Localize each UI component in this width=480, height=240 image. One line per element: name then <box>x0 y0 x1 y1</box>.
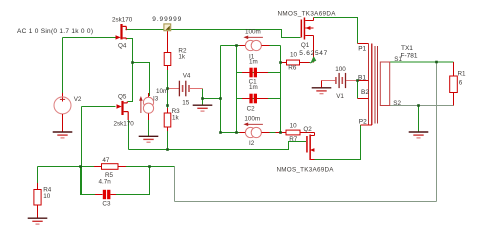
node I2 left <box>235 131 238 134</box>
ground R4 <box>28 218 48 224</box>
svg-text:1k: 1k <box>178 53 186 60</box>
wire V4 plus to ground node <box>203 89 221 99</box>
resistor R1 <box>450 62 466 106</box>
svg-text:100m: 100m <box>244 115 260 122</box>
transformer TX1 <box>358 44 418 126</box>
svg-text:47: 47 <box>102 157 110 164</box>
probe marker node 9.99999 <box>152 16 181 31</box>
wire node A to Q5 drain <box>128 63 133 102</box>
svg-text:100: 100 <box>335 66 346 73</box>
wire R3 bottom <box>167 131 169 150</box>
wire bottom rail <box>175 201 437 203</box>
node I2 right <box>279 131 282 134</box>
svg-text:Q5: Q5 <box>118 93 127 100</box>
resistor R2 <box>164 31 187 70</box>
svg-text:10: 10 <box>290 52 298 59</box>
wire S1 row <box>390 61 454 63</box>
svg-text:Q4: Q4 <box>118 43 127 50</box>
svg-text:F-781: F-781 <box>401 52 418 59</box>
capacitor C3 <box>95 178 116 207</box>
svg-text:P2: P2 <box>359 119 367 126</box>
node R3 bottom <box>166 148 169 151</box>
wire V2 stem <box>62 38 64 95</box>
wire I1 row <box>237 45 281 47</box>
node R5 left <box>79 165 82 168</box>
wire Q1 drain to P1 <box>314 18 358 44</box>
svg-text:B2: B2 <box>361 89 369 96</box>
svg-text:B1: B1 <box>358 75 366 82</box>
svg-text:1m: 1m <box>249 58 258 65</box>
battery V4 <box>168 72 203 106</box>
probe marker Q1 source node <box>310 56 316 64</box>
capacitor C2 <box>242 94 268 113</box>
node I1 left <box>235 44 238 47</box>
resistor R5 <box>94 157 126 179</box>
svg-text:P1: P1 <box>358 46 366 53</box>
svg-text:V2: V2 <box>74 96 82 103</box>
svg-text:100m: 100m <box>245 28 261 35</box>
svg-text:1k: 1k <box>172 115 180 122</box>
ground I3 <box>139 136 159 142</box>
svg-text:Q2: Q2 <box>303 126 312 133</box>
resistor R4 <box>34 183 52 218</box>
wire R4 stem <box>37 167 39 184</box>
wire Q5 gate <box>82 106 116 108</box>
wire left capacitor column <box>236 46 238 133</box>
svg-text:AC 1 0 Sin(0 1.7 1k 0 0): AC 1 0 Sin(0 1.7 1k 0 0) <box>17 28 93 35</box>
wire P2 down to Q2 drain <box>314 125 361 160</box>
wire feedback vertical x81 <box>81 107 83 195</box>
wire S2 row <box>390 105 454 107</box>
wire Q4 source path <box>127 39 133 63</box>
svg-text:C3: C3 <box>102 201 111 208</box>
current source I1 <box>239 28 269 60</box>
current source I3 <box>139 88 168 120</box>
svg-text:9.99999: 9.99999 <box>152 16 181 23</box>
resistor R7 <box>276 123 315 144</box>
wire bus to I1 column <box>221 45 237 47</box>
wire V2 to Q4 gate <box>63 37 117 39</box>
ground V1 <box>312 88 332 94</box>
wire bottom rail left vertical <box>174 167 176 202</box>
battery V1 <box>322 66 358 100</box>
current source I2 <box>239 115 269 147</box>
svg-text:TX1: TX1 <box>401 45 413 52</box>
svg-text:S2: S2 <box>393 100 401 107</box>
wire C1 row <box>237 72 281 74</box>
wire feedback right vertical <box>436 62 438 202</box>
svg-text:V1: V1 <box>336 93 344 100</box>
transistor Q5 jfet <box>114 93 135 127</box>
node R6 left tap <box>279 61 282 64</box>
svg-text:2sk170: 2sk170 <box>114 120 135 127</box>
node B1 tap <box>356 79 359 82</box>
svg-text:5.62547: 5.62547 <box>299 50 327 57</box>
node I2 bus corner <box>219 131 222 134</box>
svg-text:10: 10 <box>43 193 51 200</box>
svg-text:Q1: Q1 <box>301 42 310 49</box>
wire C2 row <box>237 98 281 100</box>
node R5 right <box>148 165 151 168</box>
svg-text:10: 10 <box>290 123 298 130</box>
node V4 ground <box>201 97 204 100</box>
wire Q5 source down <box>128 120 130 150</box>
node A Q4 source junction <box>131 61 134 64</box>
wire S2 ground stem <box>418 106 420 132</box>
svg-text:2sk170: 2sk170 <box>112 17 133 24</box>
node V4 bus <box>219 97 222 100</box>
transistor Q2 nmos <box>277 126 335 173</box>
ground V2 <box>53 132 73 138</box>
ground S2 node <box>409 132 429 138</box>
wire V4 node ground stem <box>202 99 204 106</box>
wire I2 row to Q2 source <box>221 132 315 134</box>
wire right capacitor column <box>280 46 282 133</box>
transistor Q1 nmos <box>278 10 337 62</box>
node S1 feedback <box>435 61 438 64</box>
svg-text:1m: 1m <box>249 84 258 91</box>
transistor Q4 jfet <box>112 17 133 50</box>
wire top rail (node 9.99999) <box>126 30 301 38</box>
svg-text:4.7n: 4.7n <box>99 178 112 185</box>
wire I3 bottom <box>148 115 150 137</box>
voltage source V2 (AC sine) <box>54 93 82 132</box>
wire V1 to B1 node <box>347 80 358 82</box>
wire node A to I3 top <box>133 63 150 97</box>
svg-text:C2: C2 <box>247 105 256 112</box>
svg-text:R7: R7 <box>289 136 298 143</box>
wire R5 row <box>38 166 175 168</box>
svg-text:I3: I3 <box>153 96 159 103</box>
ground V4 node <box>193 105 213 111</box>
wire supply bus x220 <box>220 46 222 133</box>
capacitor C1 <box>242 68 268 91</box>
svg-text:R1: R1 <box>458 70 467 77</box>
wire C3 loop left <box>81 167 96 195</box>
svg-text:R6: R6 <box>288 64 297 71</box>
svg-text:15: 15 <box>182 100 190 107</box>
svg-text:V4: V4 <box>183 72 191 79</box>
node S2 ground <box>417 104 420 107</box>
node R3 top column <box>166 104 169 107</box>
wire C3 loop right <box>116 167 150 195</box>
svg-text:I2: I2 <box>249 140 255 147</box>
wire R2 bottom to R3 top <box>167 70 169 108</box>
resistor R3 <box>164 108 180 131</box>
resistor R6 <box>281 52 310 72</box>
wire B1 to B2 <box>357 81 359 99</box>
wire R6 row <box>281 62 311 64</box>
node V4 left <box>166 87 169 90</box>
svg-text:6: 6 <box>459 79 463 86</box>
svg-text:NMOS_TK3A69DA: NMOS_TK3A69DA <box>277 166 335 173</box>
wire B Q5 source to Q2 gate <box>129 142 307 150</box>
svg-text:NMOS_TK3A69DA: NMOS_TK3A69DA <box>278 10 337 17</box>
